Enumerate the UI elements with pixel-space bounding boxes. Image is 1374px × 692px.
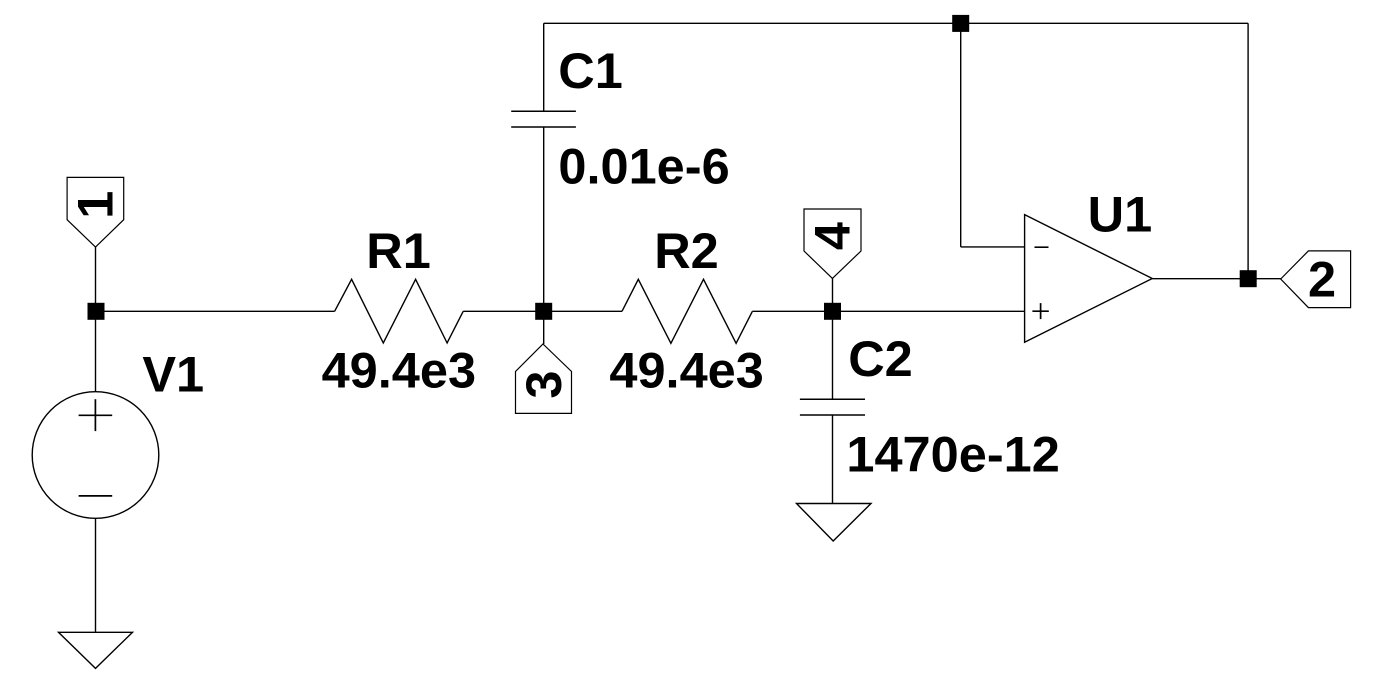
svg-text:3: 3 bbox=[515, 371, 572, 399]
port flag node 1 pentagon bbox=[67, 177, 124, 247]
wire right vertical drop to output node bbox=[1247, 23, 1249, 278]
svg-text:C1: C1 bbox=[558, 42, 623, 99]
svg-text:4: 4 bbox=[803, 222, 860, 250]
junction top feedback node bbox=[952, 15, 969, 32]
port flag node 4 pentagon bbox=[804, 209, 861, 278]
wire feedback vertical from top junction bbox=[960, 23, 962, 247]
wire node 4 stub up from port 4 flag bbox=[832, 278, 834, 311]
svg-text:R2: R2 bbox=[654, 222, 719, 279]
capacitor C2 plates bbox=[800, 399, 865, 415]
wire node 1 to R1 left terminal bbox=[96, 310, 335, 312]
resistor R1 bbox=[335, 279, 464, 343]
junction output node 2 bbox=[1240, 270, 1257, 287]
port flag node 3 pentagon bbox=[516, 344, 572, 413]
junction node 4 bbox=[824, 303, 841, 320]
op-amp U1 triangle body bbox=[1025, 215, 1153, 343]
voltage source V1 circle bbox=[32, 392, 159, 519]
svg-text:2: 2 bbox=[1308, 251, 1336, 308]
wire V1 lower lead to ground bbox=[95, 518, 97, 632]
resistor R2 bbox=[622, 279, 752, 343]
voltage source V1 minus sign bbox=[79, 495, 113, 497]
wire C2 upper lead from node 4 bbox=[832, 311, 834, 399]
svg-text:U1: U1 bbox=[1088, 186, 1153, 243]
op-amp U1 inverting input minus sign bbox=[1035, 246, 1049, 248]
op-amp U1 non-inverting input plus sign bbox=[1032, 303, 1048, 319]
junction node 3 bbox=[535, 303, 552, 320]
junction node 1 bbox=[88, 303, 105, 320]
wire port 1 stub down to node 1 bbox=[95, 247, 97, 311]
capacitor C1 plates bbox=[511, 111, 576, 127]
svg-text:0.01e-6: 0.01e-6 bbox=[558, 138, 729, 195]
wire op-amp output to port 2 bbox=[1152, 278, 1280, 280]
ground below C2 bbox=[797, 504, 872, 542]
wire V1 upper lead from node 1 bbox=[95, 311, 97, 391]
wire feedback horizontal into op-amp inverting input bbox=[961, 246, 1025, 248]
wire R2 right terminal to op-amp non-inverting input through node 4 bbox=[752, 310, 1024, 312]
voltage source V1 plus sign bbox=[79, 399, 113, 431]
svg-text:49.4e3: 49.4e3 bbox=[322, 342, 476, 399]
wire R1 right terminal to R2 left terminal through node 3 bbox=[463, 310, 622, 312]
svg-text:V1: V1 bbox=[142, 346, 204, 403]
wire C1 upper lead bbox=[543, 23, 545, 111]
svg-text:1: 1 bbox=[66, 191, 123, 219]
ground below V1 bbox=[59, 632, 133, 668]
wire C1 lower lead down to node 3 bbox=[543, 127, 545, 311]
wire top rail from C1 branch to right drop bbox=[544, 22, 1248, 24]
svg-text:R1: R1 bbox=[366, 222, 431, 279]
svg-text:1470e-12: 1470e-12 bbox=[846, 426, 1059, 483]
port flag node 2 pentagon bbox=[1281, 251, 1351, 308]
wire node 3 stub down to port 3 flag bbox=[543, 311, 545, 344]
wire C2 lower lead to ground bbox=[832, 415, 834, 504]
svg-text:C2: C2 bbox=[848, 330, 913, 387]
svg-text:49.4e3: 49.4e3 bbox=[609, 342, 763, 399]
